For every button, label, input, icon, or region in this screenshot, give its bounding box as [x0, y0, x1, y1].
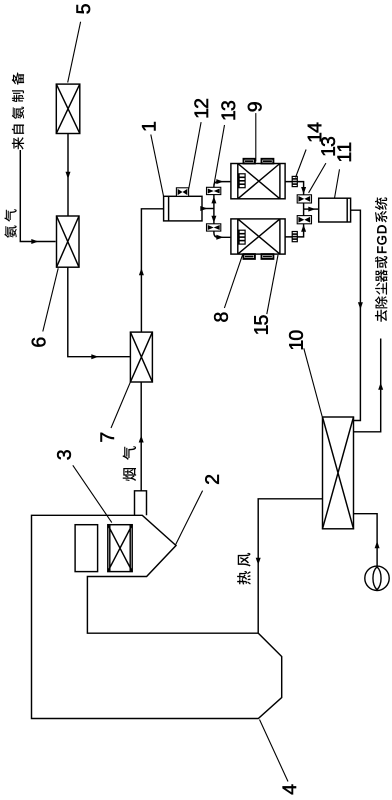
label 来自氨制备 (from ammonia preparation) [12, 72, 24, 149]
wire reactor 15 outlet [285, 209, 304, 237]
superheater U3 [108, 525, 132, 572]
arrow into valve 14u [301, 187, 306, 194]
leader 12 [189, 122, 201, 188]
arrow down to heater [358, 302, 363, 309]
leader 9 [255, 113, 257, 161]
label 氨气 (ammonia gas) [4, 209, 16, 238]
leader 13 right [309, 163, 326, 193]
economizer rect [75, 525, 98, 572]
boiler U4 outline [32, 515, 282, 718]
label 14 [308, 123, 321, 142]
wire box1 to branch node [202, 208, 214, 210]
arrow into reactor 9 [216, 179, 223, 184]
valve V13 upper [207, 187, 221, 194]
soot blower 15a [244, 254, 255, 259]
label 8 [214, 313, 228, 322]
leader 10 [304, 348, 322, 416]
reactor U9 body [231, 164, 285, 199]
wire box 11 to air heater 10 [351, 210, 361, 420]
leader 8 [224, 255, 242, 308]
leader 6 [43, 268, 58, 331]
arrow into valve 14l [301, 225, 306, 232]
leader 7 [111, 382, 131, 428]
label 7 [101, 433, 114, 442]
leader 4 [260, 720, 289, 782]
soot blower 15b [262, 254, 274, 259]
leader 14 [296, 150, 307, 178]
arrow into box 11 [308, 207, 315, 212]
arrow down into valve 13l [211, 216, 216, 223]
valve V14 lower [297, 216, 311, 224]
valve V13 lower [207, 224, 221, 231]
leader 1 [151, 135, 164, 197]
label 去除尘器或FGD系统 (to dust collector or FGD system) [375, 256, 388, 322]
arrow hot air [256, 558, 261, 565]
leader 5 [68, 22, 81, 83]
arrow 7-to-1 [139, 268, 144, 275]
AIG grid in reactor 9 [239, 174, 245, 188]
label 2 [205, 475, 219, 484]
arrow fan air [375, 541, 380, 548]
label 12 [194, 99, 208, 117]
valve V14 upper [297, 195, 311, 203]
wire branch upper to reactor 9 [214, 182, 231, 209]
damper D14 upper [292, 176, 297, 186]
wire branch lower to reactor 15 [214, 209, 231, 238]
leader 15 [267, 255, 278, 314]
wire mixer 6 to mixer 7 [68, 267, 130, 357]
arrow U5-to-6 [66, 172, 71, 179]
label 9 [248, 102, 262, 111]
leader 13 left [214, 125, 224, 184]
label 1 [142, 122, 155, 130]
label 3 [57, 450, 71, 459]
outlet duct box U11 [319, 198, 351, 222]
leader 11 [335, 169, 340, 198]
AIG grid in reactor 15 [239, 230, 245, 244]
label 5 [77, 4, 91, 13]
wire U5 to mixer 6 [67, 134, 69, 216]
label 13 right [321, 137, 335, 155]
arrow up into valve 13u [211, 196, 216, 203]
arrow into reactor 15 [216, 235, 223, 240]
fan F1 [365, 566, 389, 590]
label 烟气 (flue gas) [123, 446, 137, 481]
boiler flue stub [135, 491, 147, 516]
soot blower 9a [244, 159, 255, 164]
wire heater to FGD [354, 339, 381, 432]
wire ammonia feed line (from ammonia preparation) [20, 150, 55, 242]
air heater U10 [323, 417, 354, 529]
soot blower 9b [262, 159, 274, 164]
arrow box1 out [200, 206, 207, 211]
arrow to FGD [378, 383, 383, 390]
arrow flue gas [139, 435, 144, 442]
mixer box U7 [130, 332, 152, 382]
wire flue gas from boiler to 7 [140, 383, 142, 491]
label 11 [338, 143, 351, 161]
arrow on ammonia feed [31, 239, 38, 244]
label 6 [32, 338, 46, 347]
wire merge to box 11 [304, 208, 319, 210]
damper D14 lower [292, 232, 297, 242]
mixer box U6 [57, 216, 80, 267]
label 13 left [221, 101, 235, 119]
wire reactor 9 outlet [285, 182, 304, 210]
inlet duct box U1 [164, 196, 202, 221]
label 热风 (hot air) [237, 553, 251, 585]
arrow 6-to-7 [91, 354, 98, 359]
valve V12 on box 1 [176, 188, 188, 197]
label 15 [254, 315, 268, 333]
leader 2 [176, 491, 203, 545]
label 10 [289, 331, 303, 350]
wire 7 to inlet box 1 [141, 209, 163, 332]
ammonia unit box U5 [56, 84, 80, 133]
label 4 [283, 785, 296, 795]
wire fan to air heater [354, 514, 377, 566]
reactor U15 body [231, 219, 285, 254]
wire hot air to boiler [258, 499, 322, 633]
leader 3 [73, 465, 112, 522]
